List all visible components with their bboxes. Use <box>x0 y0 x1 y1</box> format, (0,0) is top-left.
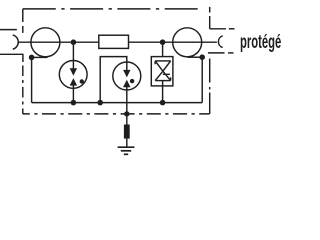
enclosure bottom border <box>23 113 210 115</box>
node: wire junction dot at GDT1 <box>71 39 77 45</box>
wire: stub circle B bottom to right riser <box>187 56 202 58</box>
GDT2 upper electrode arrow <box>123 70 130 78</box>
enclosure output notch bottom prong <box>208 52 234 54</box>
main wire <box>18 41 217 43</box>
wire: GDT2 bottom lead to earth <box>126 87 128 125</box>
enclosure right border <box>209 7 211 114</box>
GDT2 gas dot <box>130 79 134 83</box>
earthing resistor (filled) <box>124 125 130 139</box>
input terminal socket arc <box>13 35 18 49</box>
gas discharge tube F1 circle <box>59 61 87 89</box>
output terminal socket arc <box>218 36 222 48</box>
suppressor diode symbol <box>155 61 170 81</box>
bus bar <box>32 102 203 104</box>
wire: GDT1 bottom lead <box>72 85 74 103</box>
node: left stub dot <box>29 55 35 61</box>
wire: diode bottom lead <box>162 81 164 103</box>
enclosure left border <box>22 9 24 114</box>
node: junction dot on enclosure bottom <box>124 111 129 116</box>
wire: stub circle A bottom to left riser <box>32 56 48 58</box>
gas discharge tube F2 circle <box>113 62 141 90</box>
wire: left riser <box>31 57 33 102</box>
node: right stub dot <box>199 54 205 60</box>
input isolating element circle <box>31 28 60 57</box>
node: bus dot GDT1 <box>71 100 77 106</box>
resistor R1 <box>99 35 129 48</box>
wire: right riser <box>201 57 203 102</box>
GDT1 lower electrode arrow <box>70 78 77 86</box>
node: bus dot diode <box>160 100 166 106</box>
GDT2 lower electrode arrow <box>123 80 130 88</box>
unprotected input stub line top <box>0 29 17 31</box>
node: wire junction dot at diode <box>160 39 166 45</box>
wire: GDT1 top lead <box>72 42 74 69</box>
node: bus dot GDT2 rail <box>97 100 103 106</box>
GDT1 gas dot <box>80 79 84 83</box>
suppressor diode box <box>151 57 173 86</box>
wire: diode top lead <box>162 42 164 61</box>
ground symbol <box>118 147 135 154</box>
unprotected input line lower (to enclosure) <box>0 54 23 62</box>
enclosure top border <box>23 8 202 10</box>
enclosure output notch top prong <box>210 28 235 30</box>
output isolating element circle <box>173 28 202 57</box>
GDT1 upper electrode arrow <box>70 68 77 76</box>
wire: GDT2 top rail <box>100 57 127 103</box>
label protégé <box>240 33 281 52</box>
ground stem <box>126 139 128 147</box>
